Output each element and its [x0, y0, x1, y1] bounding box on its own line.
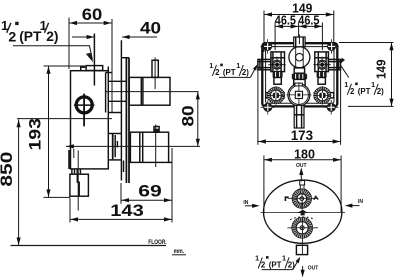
svg-text:FLOOR.: FLOOR. — [148, 239, 167, 246]
svg-text:40: 40 — [140, 19, 161, 38]
svg-text:IN: IN — [358, 199, 363, 205]
svg-text:850: 850 — [0, 152, 16, 187]
svg-text:143: 143 — [110, 201, 144, 220]
svg-text:OUT: OUT — [308, 266, 319, 272]
svg-text:149: 149 — [375, 60, 389, 80]
svg-text:60: 60 — [82, 5, 103, 24]
svg-text:193: 193 — [25, 118, 44, 151]
svg-text:IN: IN — [243, 200, 248, 206]
svg-text:180: 180 — [294, 147, 315, 161]
svg-text:173: 173 — [291, 128, 313, 143]
svg-text:(PT: (PT — [19, 29, 42, 44]
svg-text:80: 80 — [178, 105, 197, 126]
svg-text:2): 2) — [46, 29, 58, 44]
svg-text:mm.: mm. — [174, 248, 185, 255]
svg-text:2: 2 — [8, 30, 16, 46]
svg-text:69: 69 — [138, 182, 162, 201]
